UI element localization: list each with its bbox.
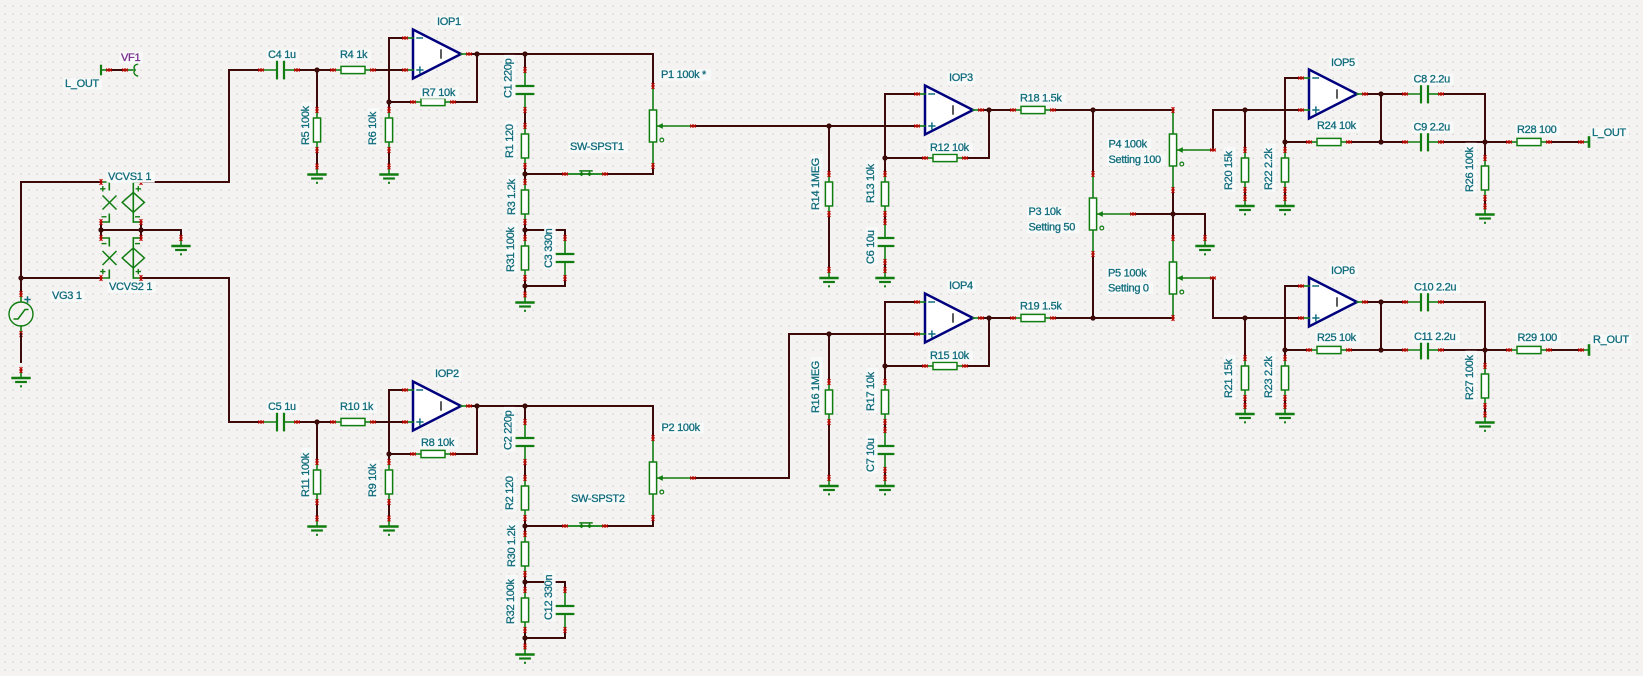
- junction node (1381,142): [1378, 139, 1383, 144]
- ground (R31): [517, 292, 534, 312]
- capacitor C3: [543, 225, 573, 281]
- capacitor C5: [258, 401, 300, 430]
- junction node (525,286): [522, 283, 527, 288]
- wire: IOP3 - input: [885, 94, 917, 158]
- wire: node to R17: [884, 366, 886, 382]
- wire: IOP5 output node: [1365, 93, 1405, 95]
- wire: VCVS1 minus to VCVS2 pin left: [100, 222, 102, 238]
- potentiometer P4: [1107, 107, 1216, 193]
- wire: R27 to ground: [1484, 406, 1486, 414]
- capacitor C10: [1402, 282, 1460, 311]
- svg-text:L_OUT: L_OUT: [1592, 127, 1627, 139]
- capacitor C12: [543, 571, 573, 633]
- resistor R6: [367, 107, 392, 153]
- resistor R10: [330, 401, 377, 426]
- wire: node to R9: [388, 454, 390, 462]
- junction node (1245,110): [1242, 107, 1247, 112]
- ground (R9): [381, 516, 398, 536]
- svg-text:C2 220p: C2 220p: [503, 410, 515, 450]
- junction node (885,366): [882, 363, 887, 368]
- svg-text:C5 1u: C5 1u: [268, 401, 296, 413]
- wire: P4 wiper to IOP5 +: [1213, 110, 1301, 150]
- junction node (1381,94): [1378, 91, 1383, 96]
- svg-text:R18 1.5k: R18 1.5k: [1020, 93, 1062, 105]
- wire: R9 to ground: [388, 502, 390, 518]
- capacitor C9: [1402, 122, 1453, 151]
- svg-text:IOP3: IOP3: [949, 72, 973, 84]
- ground (R20): [1237, 195, 1254, 215]
- svg-text:C4 1u: C4 1u: [268, 49, 296, 61]
- wire: IOP2 output row to P2 top: [469, 406, 653, 438]
- junction node (389,454): [386, 451, 391, 456]
- svg-text:R19 1.5k: R19 1.5k: [1020, 301, 1062, 313]
- wire: R11 to ground: [316, 502, 318, 518]
- wire: VCVS1 control to VG3 branch: [21, 182, 101, 294]
- wire: C8 to output node: [1441, 94, 1485, 142]
- resistor R18: [1010, 93, 1066, 114]
- ground (R23): [1277, 403, 1294, 423]
- resistor R22: [1263, 144, 1288, 193]
- wire: R2 to node: [524, 518, 526, 534]
- wire: IOP4 - input: [885, 302, 917, 366]
- resistor R26: [1464, 143, 1488, 201]
- svg-text:VG3 1: VG3 1: [52, 290, 82, 302]
- voltmeter probe VF1: [101, 52, 143, 76]
- junction node (525,526): [522, 523, 527, 528]
- wire: P3 wiper to node: [1133, 213, 1173, 215]
- resistor R12: [922, 142, 973, 162]
- wire: node to R20: [1244, 110, 1246, 150]
- svg-text:R7 10k: R7 10k: [422, 87, 456, 99]
- wire: P4 bottom to node: [1172, 190, 1174, 214]
- wire: IOP6 output node: [1365, 301, 1405, 303]
- ground (R14): [821, 267, 838, 287]
- svg-text:C1 220p: C1 220p: [503, 58, 515, 98]
- svg-text:R12 10k: R12 10k: [930, 142, 970, 154]
- ground (VCVS mid): [173, 235, 190, 255]
- wire: R12 to IOP3 output: [965, 110, 989, 158]
- svg-text:IOP2: IOP2: [435, 368, 459, 380]
- junction node (525,174): [522, 171, 527, 176]
- wire: VF1 probe link: [109, 69, 125, 71]
- wire: R26 to ground: [1484, 198, 1486, 206]
- svg-text:R29 100: R29 100: [1518, 332, 1558, 344]
- resistor R23: [1263, 352, 1288, 401]
- svg-text:C9 2.2u: C9 2.2u: [1414, 122, 1451, 134]
- ground (C6): [877, 267, 894, 287]
- capacitor C11: [1402, 331, 1460, 358]
- resistor R8: [410, 437, 458, 458]
- junction node (477,406): [474, 403, 479, 408]
- resistor R25: [1306, 332, 1360, 354]
- junction node (829,334): [826, 331, 831, 336]
- wire: R13 to C6: [884, 214, 886, 222]
- resistor R30: [506, 521, 528, 577]
- junction node (525,582): [522, 579, 527, 584]
- resistor R24: [1306, 120, 1360, 146]
- svg-text:IOP4: IOP4: [949, 280, 973, 292]
- op-amp IOP6: [1298, 265, 1368, 327]
- junction node (525,54): [522, 51, 527, 56]
- junction node (989,318): [986, 315, 991, 320]
- svg-text:VCVS2 1: VCVS2 1: [109, 281, 152, 293]
- wire: SW-SPST2 to P2 bottom: [605, 518, 653, 526]
- svg-text:R24 10k: R24 10k: [1317, 120, 1357, 132]
- wire: IOP3 out to R18: [981, 109, 1013, 111]
- wire: R6 to ground: [388, 150, 390, 166]
- wire: SW-SPST1 to P1 bottom: [605, 166, 653, 174]
- controlled source VCVS2: [100, 235, 156, 293]
- resistor R32: [505, 575, 528, 633]
- switch SW-SPST1: [562, 141, 628, 176]
- wire: input top row to VCVS1 output: [141, 70, 261, 182]
- wire: C6 to ground: [884, 262, 886, 270]
- wire: R23 to ground: [1284, 398, 1286, 406]
- svg-text:P3 10k: P3 10k: [1029, 206, 1062, 218]
- junction node (829,126): [826, 123, 831, 128]
- junction node (525,230): [522, 227, 527, 232]
- junction node (477,54): [474, 51, 479, 56]
- wire: feedback node to R8: [389, 453, 413, 455]
- wire: C2 to R2: [524, 462, 526, 478]
- junction node (525,406): [522, 403, 527, 408]
- wire: R20 to ground: [1244, 190, 1246, 198]
- svg-text:C7 10u: C7 10u: [865, 438, 877, 472]
- svg-text:C11 2.2u: C11 2.2u: [1414, 331, 1456, 343]
- wire: node to P3 top: [1092, 110, 1094, 174]
- resistor R3: [506, 175, 528, 225]
- svg-text:R10 1k: R10 1k: [340, 401, 374, 413]
- wire: IOP1 - input: [389, 38, 405, 102]
- resistor R5: [300, 102, 320, 153]
- wire: node to R11: [316, 422, 318, 462]
- wire: node to P5 top: [1172, 214, 1174, 238]
- wire: node to R15: [885, 365, 925, 367]
- wire: P3 bottom to row: [1092, 254, 1094, 318]
- wire: C7 to ground: [884, 470, 886, 478]
- resistor R27: [1464, 351, 1488, 409]
- wire: node to R24: [1285, 141, 1309, 143]
- svg-text:R5 100k: R5 100k: [300, 105, 312, 145]
- svg-text:R15 10k: R15 10k: [930, 350, 970, 362]
- op-amp IOP1: [402, 16, 472, 79]
- svg-text:R26 100k: R26 100k: [1464, 147, 1476, 192]
- wire: feedback node to R7: [389, 101, 413, 103]
- wire: R31 to ground node: [524, 278, 526, 294]
- wire: IOP6 - feedback: [1285, 286, 1301, 350]
- wire: node to R14: [828, 126, 830, 174]
- ground (VG3): [13, 367, 30, 387]
- ground (R6): [381, 164, 398, 184]
- op-amp IOP2: [402, 368, 472, 431]
- svg-text:C8 2.2u: C8 2.2u: [1414, 74, 1451, 86]
- svg-text:R13 10k: R13 10k: [865, 163, 877, 203]
- wire: C1 to R1: [524, 110, 526, 126]
- wire: R30 to node: [524, 574, 526, 590]
- svg-text:IOP6: IOP6: [1331, 265, 1355, 277]
- capacitor C4: [258, 49, 300, 78]
- wire: VCVS2 output to bottom input row: [141, 278, 261, 422]
- svg-text:R2 120: R2 120: [504, 476, 516, 510]
- ground (R32): [517, 644, 534, 664]
- wire: C5 to R10: [297, 421, 333, 423]
- wire: node to R25: [1285, 349, 1309, 351]
- wire: R24 to node: [1349, 141, 1405, 143]
- junction node (21,278): [18, 275, 23, 280]
- wire: R7 to IOP1 output: [453, 54, 477, 102]
- resistor R19: [1010, 301, 1066, 322]
- svg-text:R4 1k: R4 1k: [340, 49, 368, 61]
- wire: R25 to node: [1349, 349, 1405, 351]
- wire: node to SW-SPST2: [525, 525, 565, 527]
- wire: IOP4 out to R19: [981, 317, 1013, 319]
- junction node (989,110): [986, 107, 991, 112]
- svg-text:C6 10u: C6 10u: [865, 230, 877, 264]
- svg-text:R1 120: R1 120: [504, 124, 516, 158]
- resistor R29: [1506, 332, 1560, 354]
- svg-text:R32 100k: R32 100k: [505, 579, 517, 624]
- svg-text:P2 100k: P2 100k: [662, 422, 701, 434]
- wire: R29 to R_OUT: [1549, 349, 1581, 351]
- junction node (317,422): [314, 419, 319, 424]
- svg-text:R22 2.2k: R22 2.2k: [1263, 148, 1275, 190]
- capacitor C6: [865, 219, 893, 265]
- junction node (1285,350): [1282, 347, 1287, 352]
- svg-text:R3 1.2k: R3 1.2k: [506, 178, 518, 215]
- svg-text:R21 15k: R21 15k: [1223, 358, 1235, 398]
- wire: IOP6 out node down: [1380, 302, 1382, 350]
- ground (R5): [309, 164, 326, 184]
- ground (R27): [1477, 412, 1494, 432]
- wire: IOP1 output row to P1 top: [469, 54, 653, 86]
- ground (C7): [877, 475, 894, 495]
- potentiometer P5: [1107, 235, 1216, 321]
- wire: R22 to ground: [1284, 190, 1286, 198]
- switch SW-SPST2: [562, 493, 629, 528]
- wire: R17 to C7: [884, 422, 886, 430]
- svg-text:R17 10k: R17 10k: [865, 371, 877, 411]
- svg-text:R_OUT: R_OUT: [1593, 334, 1629, 346]
- resistor R11: [300, 448, 320, 505]
- junction node (389,102): [386, 99, 391, 104]
- capacitor C8: [1402, 74, 1453, 103]
- junction node (1173,214): [1170, 211, 1175, 216]
- svg-text:VF1: VF1: [121, 52, 140, 64]
- ground (R16): [821, 475, 838, 495]
- voltage source VG3: [9, 290, 85, 362]
- capacitor C2: [503, 407, 534, 465]
- wire: R28 to L_OUT: [1549, 141, 1581, 143]
- resistor R28: [1506, 124, 1560, 146]
- junction node (1093,318): [1090, 315, 1095, 320]
- controlled source VCVS1: [100, 171, 155, 225]
- resistor R1: [504, 121, 528, 169]
- resistor R4: [330, 49, 376, 74]
- wire: P1 wiper to IOP3 +: [693, 125, 917, 127]
- junction node (317,70): [314, 67, 319, 72]
- resistor R2: [504, 473, 528, 521]
- wire: node to R5: [316, 70, 318, 110]
- wire: C3 bottom to node: [525, 278, 565, 286]
- op-amp IOP5: [1298, 57, 1368, 119]
- wire: R14 to ground: [828, 214, 830, 270]
- svg-text:SW-SPST1: SW-SPST1: [570, 141, 624, 153]
- wire: C12 bottom to node: [525, 630, 565, 638]
- wire: R4 to IOP1 +: [373, 69, 405, 71]
- svg-text:R9 10k: R9 10k: [367, 463, 379, 497]
- svg-text:P4 100k: P4 100k: [1109, 139, 1148, 151]
- op-amp IOP3: [914, 72, 984, 135]
- svg-text:C3 330n: C3 330n: [543, 228, 555, 268]
- wire: node to C12 top: [525, 582, 565, 590]
- wire: node to C2: [524, 406, 526, 422]
- svg-text:R25 10k: R25 10k: [1317, 332, 1357, 344]
- svg-text:IOP1: IOP1: [437, 16, 461, 28]
- potentiometer P3: [1027, 171, 1136, 257]
- wire: IOP5 - feedback: [1285, 78, 1301, 142]
- junction node (885,158): [882, 155, 887, 160]
- svg-text:C12 330n: C12 330n: [543, 575, 555, 620]
- junction node (1285,142): [1282, 139, 1287, 144]
- ground (R26): [1477, 204, 1494, 224]
- resistor R17: [865, 368, 888, 425]
- svg-text:R20 15k: R20 15k: [1223, 150, 1235, 190]
- output terminal R_OUT: [1578, 334, 1632, 355]
- svg-text:R27 100k: R27 100k: [1464, 355, 1476, 400]
- wire: R32 to ground node: [524, 630, 526, 646]
- svg-text:R28 100: R28 100: [1517, 124, 1557, 136]
- resistor R14: [810, 154, 832, 217]
- potentiometer P2: [649, 422, 704, 521]
- wire: R5 to ground: [316, 150, 318, 166]
- resistor R7: [410, 87, 459, 106]
- wire: node to C1: [524, 54, 526, 70]
- resistor R21: [1223, 355, 1248, 401]
- junction node (101,230): [98, 227, 103, 232]
- wire: P2 wiper to IOP4 +: [693, 334, 917, 478]
- output terminal L_OUT: [1578, 127, 1629, 147]
- svg-text:R11 100k: R11 100k: [300, 452, 312, 497]
- ground (pot node): [1197, 235, 1214, 255]
- svg-text:R16 1MEG: R16 1MEG: [810, 361, 822, 413]
- resistor R31: [505, 223, 528, 281]
- svg-text:SW-SPST2: SW-SPST2: [571, 493, 625, 505]
- svg-text:R14 1MEG: R14 1MEG: [810, 158, 822, 210]
- wire: C10 to output node: [1441, 302, 1485, 350]
- svg-text:L_OUT: L_OUT: [65, 78, 100, 90]
- resistor R15: [922, 350, 973, 370]
- svg-text:VCVS1 1: VCVS1 1: [108, 171, 151, 183]
- wire: R19 to P5 bottom: [1053, 317, 1173, 319]
- net label L_OUT (left): [64, 78, 102, 90]
- wire: C9 to R28: [1441, 141, 1509, 143]
- svg-text:R8 10k: R8 10k: [421, 437, 455, 449]
- svg-text:Setting 50: Setting 50: [1029, 222, 1076, 234]
- wire: IOP5 out node down: [1380, 94, 1382, 142]
- op-amp IOP4: [914, 280, 984, 343]
- wire: node to R23: [1284, 350, 1286, 358]
- resistor R13: [865, 160, 888, 217]
- resistor R16: [810, 357, 832, 425]
- svg-text:Setting 100: Setting 100: [1109, 154, 1162, 166]
- wire: R1 to node: [524, 166, 526, 182]
- potentiometer P1: [649, 69, 710, 169]
- wire: P5 wiper to IOP6 +: [1213, 278, 1301, 318]
- wire: node to ground stub: [1173, 214, 1205, 238]
- wire: C11 to R29: [1441, 349, 1509, 351]
- ground (R22): [1277, 195, 1294, 215]
- ground (R11): [309, 516, 326, 536]
- resistor R9: [367, 459, 392, 505]
- svg-text:R23 2.2k: R23 2.2k: [1263, 356, 1275, 398]
- wire: node to R21: [1244, 318, 1246, 358]
- wire: R21 to ground: [1244, 398, 1246, 406]
- junction node (1485,350): [1482, 347, 1487, 352]
- resistor R20: [1223, 147, 1248, 193]
- svg-text:R30 1.2k: R30 1.2k: [506, 525, 518, 567]
- junction node (525,638): [522, 635, 527, 640]
- wire: R10 to IOP2 +: [373, 421, 405, 423]
- wire: VG3 to VCVS2 bottom row: [21, 277, 101, 279]
- wire: R15 to IOP4 output: [965, 318, 989, 366]
- svg-text:P5 100k: P5 100k: [1108, 268, 1147, 280]
- wire: node to R27: [1484, 350, 1486, 366]
- wire: IOP2 - input: [389, 390, 405, 454]
- junction node (1381,302): [1378, 299, 1383, 304]
- wire: R18 to P4 top: [1053, 109, 1173, 111]
- wire: node to R16: [828, 334, 830, 382]
- ground (R21): [1237, 403, 1254, 423]
- wire: node to R13: [884, 158, 886, 174]
- junction node (1381,350): [1378, 347, 1383, 352]
- svg-text:Setting 0: Setting 0: [1108, 283, 1149, 295]
- svg-text:P1 100k *: P1 100k *: [661, 69, 707, 81]
- svg-text:IOP5: IOP5: [1331, 57, 1355, 69]
- junction node (1485,142): [1482, 139, 1487, 144]
- wire: node to R6: [388, 102, 390, 110]
- junction node (1245,318): [1242, 315, 1247, 320]
- wire: node to SW-SPST1: [525, 173, 565, 175]
- svg-text:C10 2.2u: C10 2.2u: [1414, 282, 1456, 294]
- wire: node to R26: [1484, 142, 1486, 158]
- capacitor C7: [865, 427, 893, 473]
- junction node (141,230): [138, 227, 143, 232]
- wire: node to R22: [1284, 142, 1286, 150]
- wire: VCVS1 diamond minus to VCVS2 pin right: [140, 222, 142, 238]
- capacitor C1: [503, 55, 534, 113]
- wire: node to C3 top: [525, 230, 565, 238]
- svg-text:R6 10k: R6 10k: [367, 111, 379, 145]
- wire: node to R12: [885, 157, 925, 159]
- wire: R16 to ground: [828, 422, 830, 478]
- wire: R8 to IOP2 output: [453, 406, 477, 454]
- wire: R3 to node: [524, 222, 526, 238]
- wire: C4 to R4: [297, 69, 333, 71]
- wire: VCVS mid row to ground: [101, 230, 181, 238]
- svg-text:R31 100k: R31 100k: [505, 227, 517, 272]
- junction node (1093,110): [1090, 107, 1095, 112]
